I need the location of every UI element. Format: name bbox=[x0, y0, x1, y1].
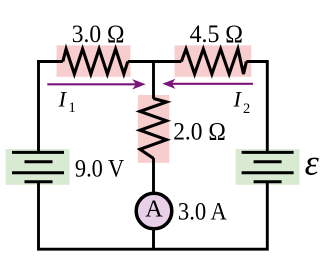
battery B2 highlight (EMF) bbox=[236, 149, 300, 185]
wire top-middle segment bbox=[128, 60, 182, 63]
svg-text:I: I bbox=[233, 87, 243, 112]
battery B1 highlight (9.0 V) bbox=[6, 149, 70, 185]
resistor R1 highlight (3.0 ohm) bbox=[57, 45, 131, 76]
svg-text:I: I bbox=[58, 87, 68, 112]
svg-text:4.5 Ω: 4.5 Ω bbox=[190, 21, 243, 48]
wire left-bottom segment bbox=[39, 182, 154, 249]
wire top-left segment bbox=[39, 62, 63, 154]
svg-text:9.0 V: 9.0 V bbox=[75, 155, 124, 182]
svg-text:2: 2 bbox=[243, 101, 250, 117]
battery B2 plates (EMF) bbox=[242, 152, 294, 181]
ammeter A1 bbox=[136, 193, 172, 229]
label I2 bbox=[233, 87, 251, 118]
resistor R2 zigzag (4.5 ohm) bbox=[181, 49, 246, 74]
wire right-bottom segment bbox=[154, 182, 268, 249]
svg-text:3.0 Ω: 3.0 Ω bbox=[72, 21, 125, 48]
node top-middle junction bbox=[152, 60, 155, 99]
wire middle to ammeter bbox=[152, 158, 155, 193]
svg-text:2.0 Ω: 2.0 Ω bbox=[173, 118, 226, 145]
svg-text:3.0 A: 3.0 A bbox=[178, 199, 227, 226]
svg-text:ε: ε bbox=[305, 143, 320, 183]
resistor R3 zigzag (2.0 ohm) bbox=[140, 99, 167, 159]
resistor R1 zigzag (3.0 ohm) bbox=[63, 49, 128, 74]
svg-text:1: 1 bbox=[69, 100, 76, 116]
current arrow I2 bbox=[162, 79, 253, 89]
label I1 bbox=[58, 87, 76, 117]
resistor R3 highlight (2.0 ohm) bbox=[138, 95, 170, 163]
battery B1 plates (9.0 V) bbox=[12, 152, 64, 181]
wire top-right segment bbox=[246, 62, 267, 154]
svg-text:A: A bbox=[145, 196, 163, 223]
resistor R2 highlight (4.5 ohm) bbox=[175, 45, 252, 76]
current arrow I1 bbox=[47, 79, 145, 89]
wire ammeter to bottom bbox=[152, 229, 155, 249]
